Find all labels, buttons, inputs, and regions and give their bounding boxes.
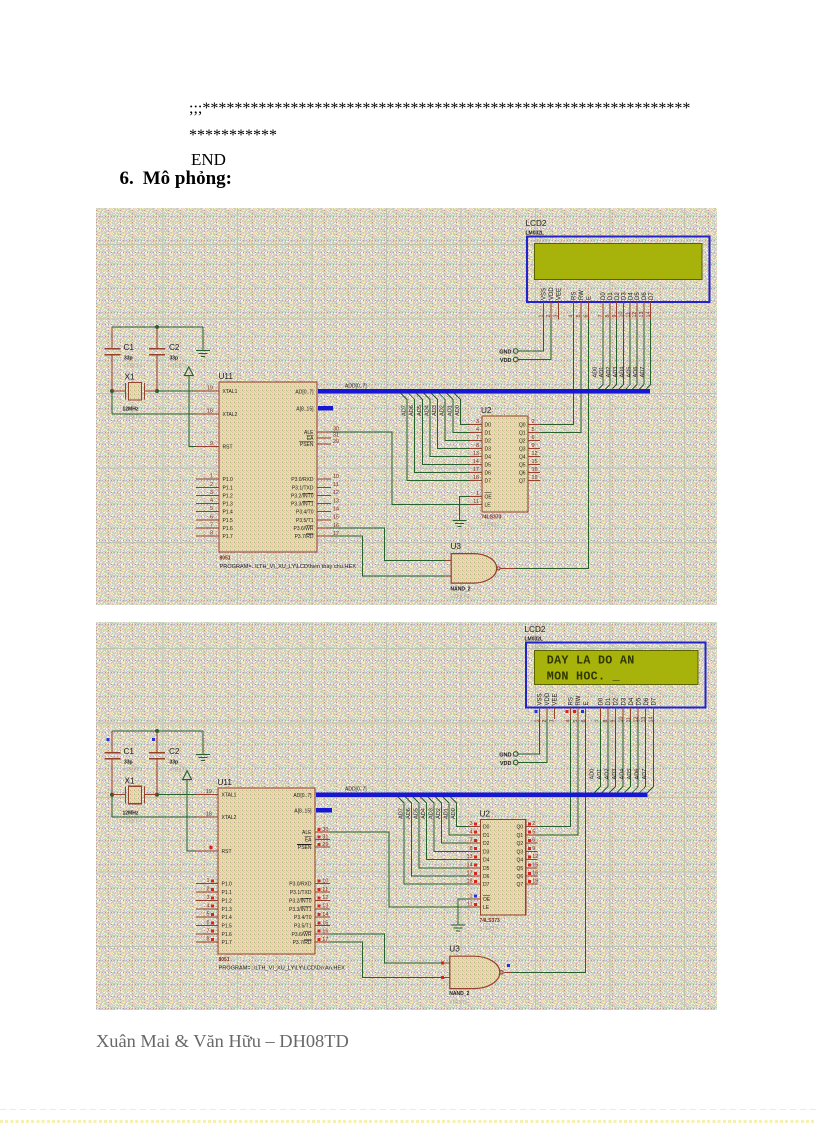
svg-text:NAND_2: NAND_2 — [449, 991, 469, 997]
svg-text:5: 5 — [532, 829, 535, 835]
svg-text:18: 18 — [473, 475, 479, 481]
svg-text:P3.7/RD: P3.7/RD — [293, 940, 312, 946]
svg-text:19: 19 — [207, 386, 213, 392]
svg-text:12: 12 — [532, 451, 538, 457]
svg-text:P1.5: P1.5 — [223, 518, 234, 524]
svg-text:D2: D2 — [615, 292, 621, 300]
svg-text:5: 5 — [210, 506, 213, 512]
svg-text:11: 11 — [322, 887, 328, 893]
svg-text:PROGRAM=..\LTH_VI_XU_LY\LY\LCD: PROGRAM=..\LTH_VI_XU_LY\LY\LCD\Do An.HEX — [219, 965, 346, 971]
svg-text:AD6: AD6 — [635, 769, 641, 780]
svg-text:VEE: VEE — [557, 288, 563, 300]
svg-text:1: 1 — [539, 315, 545, 318]
svg-text:5: 5 — [206, 912, 209, 918]
svg-text:LCD2: LCD2 — [525, 625, 546, 634]
svg-text:P3.4/T0: P3.4/T0 — [294, 915, 312, 921]
svg-text:15: 15 — [532, 459, 538, 465]
svg-text:D6: D6 — [485, 470, 492, 476]
svg-text:2: 2 — [532, 419, 535, 425]
svg-text:3: 3 — [554, 315, 560, 318]
svg-text:AD1: AD1 — [443, 808, 449, 819]
svg-text:Q6: Q6 — [517, 874, 524, 880]
svg-text:D2: D2 — [485, 438, 492, 444]
svg-text:Q1: Q1 — [517, 833, 524, 839]
svg-text:2: 2 — [206, 887, 209, 893]
svg-text:P1.0: P1.0 — [223, 477, 234, 483]
svg-text:15: 15 — [322, 920, 328, 926]
svg-text:RS: RS — [569, 697, 575, 705]
svg-text:A[8..15]: A[8..15] — [296, 407, 314, 413]
svg-text:P1.4: P1.4 — [223, 510, 234, 516]
svg-text:D5: D5 — [635, 292, 641, 300]
svg-text:3: 3 — [476, 419, 479, 425]
svg-text:C2: C2 — [169, 747, 180, 756]
svg-text:C1: C1 — [124, 343, 135, 352]
svg-text:AD7: AD7 — [401, 405, 407, 416]
svg-text:AD5: AD5 — [413, 808, 419, 819]
svg-text:17: 17 — [473, 467, 479, 473]
svg-text:D4: D4 — [483, 858, 490, 864]
svg-text:8: 8 — [605, 315, 611, 318]
svg-text:D3: D3 — [485, 446, 492, 452]
svg-text:1: 1 — [476, 491, 479, 497]
svg-text:P1.2: P1.2 — [223, 493, 234, 499]
svg-text:31: 31 — [322, 834, 328, 840]
svg-text:U11: U11 — [218, 778, 233, 787]
svg-text:D5: D5 — [485, 462, 492, 468]
svg-text:7: 7 — [598, 315, 604, 318]
svg-text:GND: GND — [499, 753, 511, 759]
svg-text:D1: D1 — [608, 292, 614, 300]
svg-text:4: 4 — [210, 498, 213, 504]
svg-text:AD5: AD5 — [417, 405, 423, 416]
svg-text:P1.3: P1.3 — [223, 502, 234, 508]
svg-text:AD3: AD3 — [613, 367, 619, 378]
svg-text:13: 13 — [466, 854, 472, 860]
svg-text:AD4: AD4 — [620, 769, 626, 780]
svg-text:C2: C2 — [169, 343, 180, 352]
svg-text:Q3: Q3 — [519, 446, 526, 452]
svg-text:Q3: Q3 — [517, 849, 524, 855]
svg-text:GND: GND — [499, 350, 511, 356]
svg-text:Q0: Q0 — [517, 825, 524, 831]
svg-text:P1.7: P1.7 — [223, 534, 234, 540]
svg-text:D4: D4 — [628, 292, 634, 300]
svg-text:14: 14 — [322, 912, 328, 918]
svg-text:<TEXT>: <TEXT> — [124, 364, 143, 370]
svg-text:P3.5/T1: P3.5/T1 — [296, 518, 314, 524]
svg-text:7: 7 — [470, 838, 473, 844]
svg-text:13: 13 — [322, 904, 328, 910]
svg-text:AD0: AD0 — [589, 769, 595, 780]
svg-text:P3.1/TXD: P3.1/TXD — [292, 485, 314, 491]
svg-text:11: 11 — [467, 902, 473, 908]
svg-text:P3.0/RXD: P3.0/RXD — [289, 882, 312, 888]
svg-text:P3.0/RXD: P3.0/RXD — [291, 477, 314, 483]
svg-text:D5: D5 — [483, 866, 490, 872]
svg-text:VDD: VDD — [545, 692, 551, 705]
svg-text:P3.2/INT0: P3.2/INT0 — [291, 493, 314, 499]
svg-text:2: 2 — [532, 821, 535, 827]
svg-text:<TEXT>: <TEXT> — [123, 415, 142, 421]
svg-text:74LS373: 74LS373 — [481, 515, 502, 521]
svg-text:33p: 33p — [170, 356, 179, 362]
svg-text:<TEXT>: <TEXT> — [533, 238, 550, 243]
svg-text:1: 1 — [470, 893, 473, 899]
svg-text:AD3: AD3 — [612, 769, 618, 780]
svg-text:<TEXT>: <TEXT> — [481, 523, 500, 529]
svg-text:<TEXT>: <TEXT> — [124, 768, 143, 774]
svg-text:U2: U2 — [480, 810, 491, 819]
svg-text:D2: D2 — [483, 841, 490, 847]
svg-text:P1.7: P1.7 — [222, 940, 233, 946]
svg-text:D3: D3 — [622, 292, 628, 300]
svg-text:AD1: AD1 — [597, 769, 603, 780]
svg-text:D5: D5 — [636, 697, 642, 705]
svg-text:Q0: Q0 — [519, 422, 526, 428]
svg-text:3: 3 — [210, 490, 213, 496]
svg-text:D6: D6 — [644, 697, 650, 705]
svg-text:12MHz: 12MHz — [123, 811, 139, 817]
svg-text:P1.1: P1.1 — [222, 890, 233, 896]
svg-text:Q5: Q5 — [519, 462, 526, 468]
svg-text:4: 4 — [569, 315, 575, 318]
svg-text:XTAL2: XTAL2 — [222, 815, 237, 821]
svg-text:8: 8 — [206, 937, 209, 943]
svg-text:16: 16 — [532, 467, 538, 473]
svg-text:PROGRAM=..\LTH_VI_XU_LY\LCD\hi: PROGRAM=..\LTH_VI_XU_LY\LCD\hien thay ch… — [220, 564, 357, 570]
svg-text:Q6: Q6 — [519, 470, 526, 476]
svg-text:D7: D7 — [483, 882, 490, 888]
svg-text:12: 12 — [333, 490, 339, 496]
svg-text:P1.6: P1.6 — [223, 526, 234, 532]
svg-text:16: 16 — [532, 870, 538, 876]
svg-text:D3: D3 — [483, 849, 490, 855]
svg-text:AD2: AD2 — [606, 367, 612, 378]
svg-text:11: 11 — [473, 499, 479, 505]
svg-text:D7: D7 — [485, 478, 492, 484]
svg-text:D7: D7 — [649, 292, 655, 300]
svg-text:RST: RST — [222, 849, 232, 855]
svg-text:6: 6 — [584, 315, 590, 318]
svg-text:X1: X1 — [125, 777, 135, 786]
svg-text:10: 10 — [619, 312, 625, 318]
svg-text:4: 4 — [470, 829, 473, 835]
svg-text:AD2: AD2 — [436, 808, 442, 819]
svg-text:8051: 8051 — [220, 556, 231, 562]
svg-text:XTAL1: XTAL1 — [223, 389, 238, 395]
svg-text:7: 7 — [206, 928, 209, 934]
svg-text:LE: LE — [483, 905, 490, 911]
svg-text:AD2: AD2 — [440, 405, 446, 416]
svg-text:AD6: AD6 — [633, 367, 639, 378]
svg-text:13: 13 — [333, 498, 339, 504]
svg-text:<TEXT>: <TEXT> — [169, 768, 188, 774]
svg-text:P3.7/RD: P3.7/RD — [295, 534, 314, 540]
svg-text:33p: 33p — [124, 356, 133, 362]
svg-text:NAND_2: NAND_2 — [451, 587, 471, 593]
svg-text:8: 8 — [476, 443, 479, 449]
svg-text:AD6: AD6 — [406, 808, 412, 819]
svg-text:P3.3/INT1: P3.3/INT1 — [291, 502, 314, 508]
svg-text:10: 10 — [333, 474, 339, 480]
svg-text:P1.3: P1.3 — [222, 907, 233, 913]
svg-text:EA: EA — [305, 838, 312, 844]
svg-text:3: 3 — [206, 895, 209, 901]
svg-text:P1.6: P1.6 — [222, 932, 233, 938]
svg-text:U3: U3 — [449, 945, 460, 954]
svg-text:D1: D1 — [483, 833, 490, 839]
svg-text:D2: D2 — [614, 697, 620, 705]
svg-text:D0: D0 — [599, 697, 605, 705]
svg-text:D6: D6 — [483, 874, 490, 880]
svg-text:Q4: Q4 — [519, 454, 526, 460]
svg-text:17: 17 — [466, 870, 472, 876]
svg-text:16: 16 — [322, 929, 328, 935]
svg-text:LCD2: LCD2 — [526, 219, 547, 228]
svg-text:5: 5 — [532, 427, 535, 433]
svg-text:19: 19 — [206, 789, 212, 795]
svg-text:MON HOC. _: MON HOC. _ — [547, 669, 621, 683]
svg-text:2: 2 — [546, 315, 552, 318]
svg-text:LE: LE — [485, 502, 492, 508]
svg-text:AD6: AD6 — [409, 405, 415, 416]
svg-text:8: 8 — [470, 846, 473, 852]
svg-text:RW: RW — [579, 290, 585, 300]
svg-text:VSS: VSS — [542, 288, 548, 300]
svg-text:AD3: AD3 — [428, 808, 434, 819]
svg-text:8: 8 — [210, 531, 213, 537]
svg-text:14: 14 — [466, 862, 472, 868]
svg-text:19: 19 — [532, 475, 538, 481]
svg-text:PSEN: PSEN — [298, 845, 312, 851]
svg-text:15: 15 — [532, 862, 538, 868]
svg-text:Q2: Q2 — [519, 438, 526, 444]
svg-text:X1: X1 — [125, 373, 135, 382]
svg-text:P3.1/TXD: P3.1/TXD — [290, 890, 312, 896]
svg-text:<TEXT>: <TEXT> — [532, 644, 549, 649]
svg-text:7: 7 — [210, 523, 213, 529]
svg-text:12: 12 — [322, 895, 328, 901]
svg-text:AD7: AD7 — [640, 367, 646, 378]
svg-text:15: 15 — [333, 515, 339, 521]
svg-text:RST: RST — [223, 445, 233, 451]
svg-text:9: 9 — [210, 441, 213, 447]
svg-text:Q4: Q4 — [517, 858, 524, 864]
svg-text:Q7: Q7 — [517, 882, 524, 888]
svg-text:11: 11 — [333, 482, 339, 488]
svg-text:18: 18 — [466, 879, 472, 885]
svg-text:D4: D4 — [629, 697, 635, 705]
svg-text:1: 1 — [210, 474, 213, 480]
svg-text:9: 9 — [612, 315, 618, 318]
svg-text:AD1: AD1 — [447, 405, 453, 416]
svg-text:2: 2 — [210, 482, 213, 488]
svg-text:Q1: Q1 — [519, 430, 526, 436]
svg-text:14: 14 — [473, 459, 479, 465]
svg-text:P3.5/T1: P3.5/T1 — [294, 923, 312, 929]
svg-text:D0: D0 — [485, 422, 492, 428]
svg-text:18: 18 — [206, 812, 212, 818]
svg-text:13: 13 — [639, 312, 645, 318]
svg-text:VDD: VDD — [549, 287, 555, 300]
svg-text:13: 13 — [473, 451, 479, 457]
svg-text:5: 5 — [573, 720, 579, 723]
svg-text:U11: U11 — [219, 372, 234, 381]
svg-text:12: 12 — [532, 854, 538, 860]
svg-text:9: 9 — [532, 846, 535, 852]
svg-text:6: 6 — [532, 838, 535, 844]
svg-text:ADD[0..7]: ADD[0..7] — [345, 383, 367, 389]
svg-text:AD2: AD2 — [604, 769, 610, 780]
svg-text:AD3: AD3 — [432, 405, 438, 416]
svg-text:P3.6/WR: P3.6/WR — [293, 526, 313, 532]
svg-text:E: E — [584, 701, 590, 705]
svg-text:D6: D6 — [642, 292, 648, 300]
svg-text:AD5: AD5 — [626, 367, 632, 378]
svg-text:D4: D4 — [485, 454, 492, 460]
svg-text:7: 7 — [476, 435, 479, 441]
svg-text:XTAL1: XTAL1 — [222, 793, 237, 799]
svg-text:D3: D3 — [621, 697, 627, 705]
svg-text:AD7: AD7 — [642, 769, 648, 780]
svg-text:A[8..15]: A[8..15] — [294, 809, 312, 815]
svg-text:P1.4: P1.4 — [222, 915, 233, 921]
svg-text:Q5: Q5 — [517, 866, 524, 872]
svg-text:D1: D1 — [485, 430, 492, 436]
svg-text:4: 4 — [206, 903, 209, 909]
svg-text:D0: D0 — [601, 292, 607, 300]
svg-text:9: 9 — [532, 443, 535, 449]
svg-text:D0: D0 — [483, 825, 490, 831]
svg-text:6: 6 — [581, 720, 587, 723]
svg-text:AD4: AD4 — [424, 405, 430, 416]
svg-text:ADD[0..7]: ADD[0..7] — [345, 787, 367, 793]
svg-text:31: 31 — [333, 433, 339, 439]
svg-text:14: 14 — [646, 312, 652, 318]
svg-text:19: 19 — [532, 879, 538, 885]
svg-text:AD7: AD7 — [398, 808, 404, 819]
svg-text:33p: 33p — [124, 760, 133, 766]
svg-text:U3: U3 — [451, 542, 462, 551]
svg-text:EA: EA — [307, 436, 314, 442]
svg-text:<TEXT>: <TEXT> — [480, 926, 499, 932]
svg-text:AD[0..7]: AD[0..7] — [295, 390, 314, 396]
svg-text:P1.0: P1.0 — [222, 882, 233, 888]
svg-text:P3.3/INT1: P3.3/INT1 — [289, 907, 312, 913]
svg-text:6: 6 — [206, 920, 209, 926]
svg-text:D1: D1 — [606, 697, 612, 705]
svg-text:DAY LA DO AN: DAY LA DO AN — [547, 653, 635, 667]
svg-text:AD4: AD4 — [421, 808, 427, 819]
svg-text:P3.4/T0: P3.4/T0 — [296, 510, 314, 516]
svg-text:12: 12 — [632, 312, 638, 318]
svg-text:P3.2/INT0: P3.2/INT0 — [289, 898, 312, 904]
svg-text:8051: 8051 — [219, 957, 230, 963]
svg-text:AD5: AD5 — [627, 769, 633, 780]
svg-text:AD1: AD1 — [599, 367, 605, 378]
svg-text:4: 4 — [566, 720, 572, 723]
svg-text:VEE: VEE — [553, 693, 559, 705]
svg-text:11: 11 — [625, 312, 631, 318]
svg-text:12MHz: 12MHz — [123, 407, 139, 413]
svg-text:XTAL2: XTAL2 — [223, 412, 238, 418]
svg-text:3: 3 — [470, 821, 473, 827]
svg-text:4: 4 — [476, 427, 479, 433]
svg-text:OE: OE — [485, 494, 493, 500]
svg-text:1: 1 — [206, 878, 209, 884]
svg-text:VDD: VDD — [500, 761, 512, 767]
svg-text:E: E — [587, 296, 593, 300]
svg-text:VSS: VSS — [538, 693, 544, 705]
svg-text:OE: OE — [483, 897, 491, 903]
svg-text:AD0: AD0 — [451, 808, 457, 819]
svg-text:AD0: AD0 — [592, 367, 598, 378]
svg-text:ALE: ALE — [302, 830, 312, 836]
svg-text:<TEXT>: <TEXT> — [449, 1000, 468, 1006]
svg-text:AD0: AD0 — [455, 405, 461, 416]
svg-text:33p: 33p — [170, 760, 179, 766]
svg-text:14: 14 — [333, 507, 339, 513]
svg-text:6: 6 — [210, 514, 213, 520]
svg-text:29: 29 — [322, 842, 328, 848]
svg-text:AD[0..7]: AD[0..7] — [293, 793, 312, 799]
svg-text:RS: RS — [572, 292, 578, 300]
svg-text:<TEXT>: <TEXT> — [123, 819, 142, 825]
svg-text:18: 18 — [207, 409, 213, 415]
svg-text:P1.5: P1.5 — [222, 923, 233, 929]
svg-text:17: 17 — [322, 937, 328, 943]
svg-text:U2: U2 — [481, 406, 492, 415]
svg-text:Q7: Q7 — [519, 478, 526, 484]
svg-text:VDD: VDD — [500, 358, 512, 364]
svg-text:C1: C1 — [124, 747, 135, 756]
svg-text:6: 6 — [532, 435, 535, 441]
svg-text:P1.2: P1.2 — [222, 898, 233, 904]
svg-text:<TEXT>: <TEXT> — [169, 364, 188, 370]
svg-text:P3.6/WR: P3.6/WR — [291, 932, 311, 938]
svg-text:P1.1: P1.1 — [223, 485, 234, 491]
svg-text:29: 29 — [333, 439, 339, 445]
svg-text:3: 3 — [550, 720, 556, 723]
svg-text:D7: D7 — [652, 697, 658, 705]
svg-text:10: 10 — [322, 879, 328, 885]
svg-text:5: 5 — [576, 315, 582, 318]
svg-text:PSEN: PSEN — [300, 442, 314, 448]
svg-text:<TEXT>: <TEXT> — [451, 595, 470, 601]
svg-text:74LS373: 74LS373 — [480, 918, 501, 924]
svg-text:RW: RW — [576, 695, 582, 705]
svg-text:AD4: AD4 — [620, 367, 626, 378]
svg-text:Q2: Q2 — [517, 841, 524, 847]
svg-text:30: 30 — [322, 827, 328, 833]
